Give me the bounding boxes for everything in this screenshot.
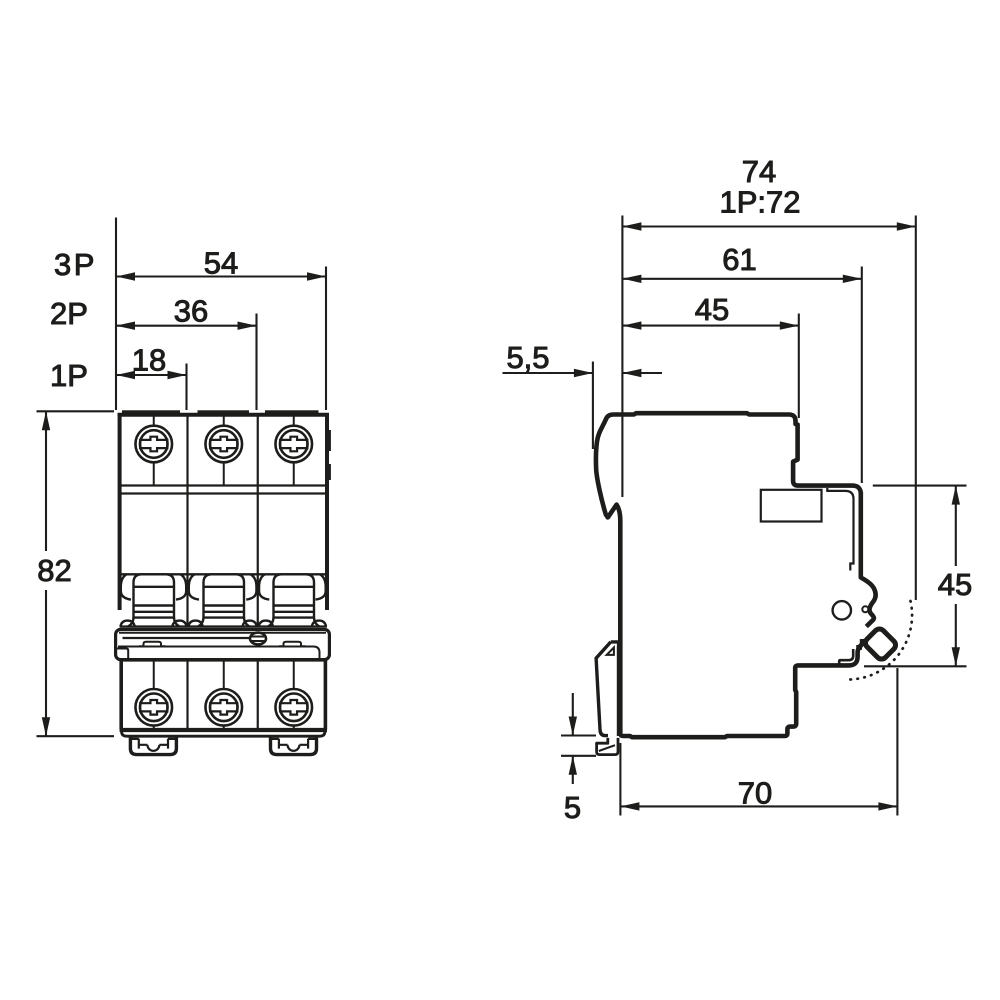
DIN clip left: [130, 738, 176, 755]
pole divider lines: [188, 416, 258, 627]
svg-text:45: 45: [695, 292, 729, 327]
dimension 5,5: [503, 372, 663, 374]
DIN rail clip arm (side): [596, 642, 611, 736]
dimension 82: [37, 411, 115, 736]
extension line left x116: [115, 218, 117, 411]
arc-chute groove inner line: [839, 649, 853, 664]
top terminal screw 2: [205, 426, 242, 463]
svg-text:54: 54: [204, 246, 238, 281]
recess wings at divider 1: [172, 574, 186, 626]
dimension 70: [620, 668, 897, 816]
dimension 45 right: [955, 486, 957, 667]
tie bar left notch: [116, 649, 128, 660]
recess wings at body right edge: [312, 574, 326, 626]
pole centre lines (top section): [154, 416, 294, 486]
side outline: top, back, bottom: [596, 413, 862, 737]
body top edge: [118, 413, 330, 417]
clip inner triangle: [607, 648, 614, 655]
bottom flange step: [122, 731, 326, 736]
tie bar tab left: [139, 642, 166, 647]
svg-text:1P:72: 1P:72: [719, 185, 800, 220]
body top raised pole segments: [122, 410, 319, 415]
tie bar lower line: [118, 647, 320, 659]
bottom terminal screw 3: [275, 689, 312, 726]
recess wings at divider 2: [243, 574, 257, 626]
horizontal seam lines: [120, 484, 327, 486]
svg-text:45: 45: [938, 567, 972, 602]
body edge below toggle neck: [856, 639, 862, 647]
extension line 54: [325, 267, 327, 411]
svg-text:61: 61: [722, 242, 756, 277]
svg-text:2P: 2P: [50, 296, 88, 331]
svg-text:3P: 3P: [54, 247, 97, 282]
bottom divider lines: [188, 660, 258, 729]
dimension 36: [116, 325, 257, 327]
extension line x861.8: [861, 267, 863, 484]
tie bar tab right: [279, 642, 306, 647]
recess top line: [120, 573, 327, 575]
inner step line: [827, 488, 853, 571]
svg-text:82: 82: [37, 553, 71, 588]
svg-text:5: 5: [564, 790, 581, 825]
handle tie bar: [116, 629, 330, 659]
pivot dot: [862, 606, 868, 612]
extension line x592.9: [592, 362, 594, 450]
right 45 extension lines: [864, 486, 967, 667]
body left edge: [118, 413, 122, 610]
svg-text:70: 70: [738, 776, 772, 811]
dimension 45 top: [622, 325, 798, 327]
extension line x622.4: [621, 216, 623, 498]
top terminal screw 1: [135, 426, 172, 463]
clip foot diagonal: [599, 745, 615, 751]
body right edge: [325, 413, 329, 610]
svg-text:36: 36: [174, 294, 208, 329]
bottom section sides: [121, 660, 325, 729]
right side tabs: [328, 430, 331, 480]
svg-text:5,5: 5,5: [506, 340, 549, 375]
svg-text:1P: 1P: [50, 358, 88, 393]
bottom terminal screw 1: [135, 689, 172, 726]
dimension 74: [622, 225, 915, 227]
clip arm right edge: [617, 647, 620, 737]
recess bottom line: [120, 625, 327, 627]
toggle travel dotted arc: [845, 601, 912, 680]
clip top tab: [611, 642, 619, 647]
pivot circle: [833, 601, 851, 619]
extension line 36: [255, 314, 257, 411]
dimension 5 extension lines: [561, 736, 596, 756]
side outline: right/front edge with steps: [793, 421, 861, 495]
recess wings at body left edge: [121, 574, 135, 626]
DIN clip right: [271, 738, 317, 755]
lever pole 3: [268, 574, 319, 626]
tie bar centre screw: [250, 633, 266, 645]
body bottom edge: [120, 728, 327, 732]
svg-text:18: 18: [132, 343, 166, 378]
top terminal screw 3: [275, 426, 312, 463]
dimension 5: [572, 693, 574, 784]
clip foot: [597, 738, 618, 755]
lever pole 2: [198, 574, 249, 626]
extension line 18: [185, 364, 187, 411]
extension line x915.8: [915, 216, 917, 601]
label plate rectangle: [761, 490, 822, 522]
lever pole 1: [128, 574, 179, 626]
bottom pole centre lines: [154, 660, 294, 729]
front edge and toggle nose: [861, 492, 876, 627]
dimension 54: [116, 275, 326, 277]
toggle lever (side, tilted): [863, 627, 898, 662]
dimension 18: [116, 374, 187, 376]
bottom section top line: [121, 659, 325, 662]
extension line x798.8: [798, 314, 800, 419]
bottom terminal screw 2: [205, 689, 242, 726]
dimension 61: [622, 278, 861, 280]
